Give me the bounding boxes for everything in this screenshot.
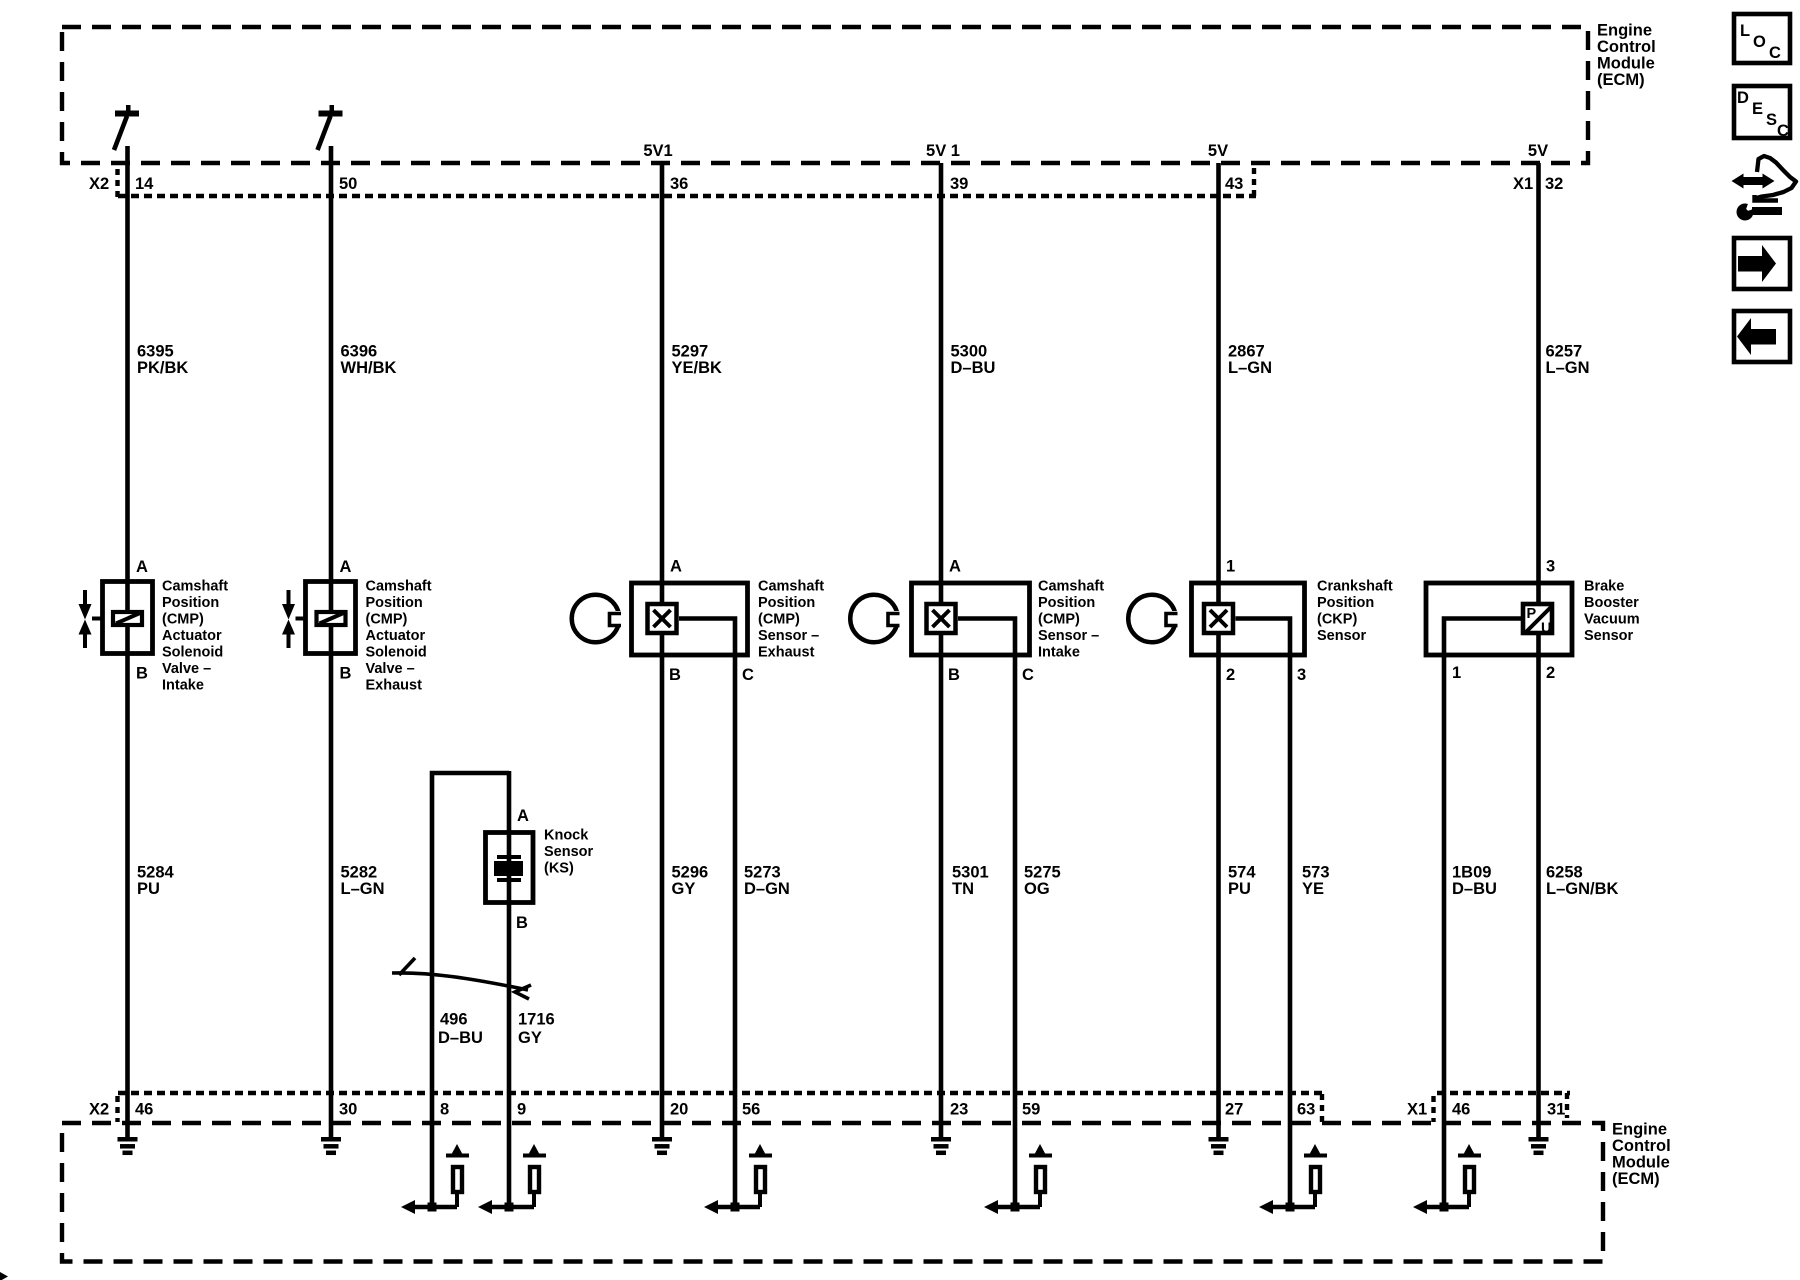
ground (pin 30) <box>321 1139 341 1153</box>
svg-text:C: C <box>1022 666 1034 684</box>
svg-text:5V 1: 5V 1 <box>926 142 960 160</box>
svg-text:A: A <box>340 558 352 576</box>
knock sensor KS <box>486 807 594 932</box>
sensor B4: Brake Booster Vacuum Sensor <box>1426 558 1640 683</box>
ground (pin 46 X2) <box>118 1139 138 1153</box>
svg-text:36: 36 <box>670 175 688 193</box>
ground (pin 23) <box>931 1139 951 1153</box>
svg-text:5301: 5301 <box>952 864 989 882</box>
wire 6396 WH/BK (pin 50 to solenoid A, then 5282 L-GN pin B to pin 30) <box>329 146 334 1139</box>
svg-text:46: 46 <box>1452 1101 1470 1119</box>
reluctor wheel (CMP intake) <box>850 595 902 643</box>
wire 6395 PK/BK (pin 14 to solenoid A, then 5284 PU pin B to pin 46) <box>125 146 130 1139</box>
svg-text:5V1: 5V1 <box>643 142 672 160</box>
sensor B3: Crankshaft Position (CKP) Sensor <box>1192 558 1393 685</box>
wire 496 D-BU (knock sensor A loop to pin 8) <box>432 773 509 1207</box>
wire label 5297 YE/BK <box>672 343 723 378</box>
svg-text:14: 14 <box>135 175 154 193</box>
svg-text:Crankshaft: Crankshaft <box>1317 579 1393 595</box>
svg-text:D–BU: D–BU <box>1452 880 1497 898</box>
wire label 5296 GY <box>672 864 709 899</box>
svg-text:Sensor: Sensor <box>1584 628 1634 644</box>
wire label 1716 GY <box>518 1011 555 1048</box>
svg-text:3: 3 <box>1297 666 1306 684</box>
svg-text:63: 63 <box>1297 1101 1315 1119</box>
svg-text:(ECM): (ECM) <box>1597 71 1645 89</box>
svg-text:B: B <box>669 666 681 684</box>
svg-text:2: 2 <box>1546 664 1555 682</box>
svg-text:2: 2 <box>1226 666 1235 684</box>
LOC legend icon <box>1734 14 1790 63</box>
svg-text:30: 30 <box>339 1101 357 1119</box>
svg-text:5V: 5V <box>1528 142 1548 160</box>
svg-text:Module: Module <box>1597 55 1655 73</box>
ECM bottom module box <box>62 1121 1671 1262</box>
svg-text:Position: Position <box>1317 595 1374 611</box>
svg-text:Solenoid: Solenoid <box>366 645 427 661</box>
svg-text:1: 1 <box>1226 558 1235 576</box>
ground (pin 27) <box>1209 1139 1229 1153</box>
page edge artifact mark <box>0 1272 8 1280</box>
svg-text:D–GN: D–GN <box>744 880 790 898</box>
svg-text:(CKP): (CKP) <box>1317 612 1357 628</box>
wire label 6258 L-GN/BK <box>1546 864 1619 899</box>
svg-text:46: 46 <box>135 1101 153 1119</box>
svg-text:C: C <box>1777 122 1789 140</box>
svg-text:X2: X2 <box>89 1101 109 1119</box>
wire 5297 YE/BK (pin 36 to CMP exhaust A, then 5296 GY pin B to pin 20) <box>660 163 665 1139</box>
svg-text:Camshaft: Camshaft <box>1038 579 1104 595</box>
svg-text:Intake: Intake <box>1038 645 1080 661</box>
wire label 2867 L-GN <box>1228 343 1272 378</box>
svg-text:6395: 6395 <box>137 343 174 361</box>
svg-text:5275: 5275 <box>1024 864 1061 882</box>
svg-text:1B09: 1B09 <box>1452 864 1491 882</box>
wire label 5275 OG <box>1024 864 1061 899</box>
svg-text:Control: Control <box>1597 38 1656 56</box>
svg-text:Vacuum: Vacuum <box>1584 612 1640 628</box>
wire label 6396 WH/BK <box>341 343 397 378</box>
ECM internal termination resistor R (pin 59) <box>984 1144 1052 1214</box>
svg-text:5V: 5V <box>1208 142 1228 160</box>
svg-text:U: U <box>1541 621 1551 637</box>
wire label 5273 D-GN <box>744 864 790 899</box>
svg-text:D–BU: D–BU <box>438 1029 483 1047</box>
svg-text:Position: Position <box>162 595 219 611</box>
svg-text:L: L <box>1740 22 1750 40</box>
svg-text:Sensor –: Sensor – <box>758 628 819 644</box>
DESC legend icon <box>1734 86 1790 140</box>
svg-text:Engine: Engine <box>1597 22 1652 40</box>
wire 1809 D-BU (BBV 1 to X1 pin 46) <box>1444 619 1522 1208</box>
svg-text:B: B <box>340 665 352 683</box>
svg-text:5273: 5273 <box>744 864 781 882</box>
wire label 573 YE <box>1302 864 1330 899</box>
wire 2867 L-GN (pin 43 to CKP 1, then 574 PU pin 2 to pin 27) <box>1216 163 1221 1139</box>
svg-text:27: 27 <box>1225 1101 1243 1119</box>
svg-text:X2: X2 <box>89 175 109 193</box>
sensor B1: Camshaft Position (CMP) Sensor - Exhaust <box>632 558 825 685</box>
wire label 6257 L-GN <box>1546 343 1590 378</box>
svg-text:59: 59 <box>1022 1101 1040 1119</box>
svg-text:Position: Position <box>1038 595 1095 611</box>
svg-text:B: B <box>948 666 960 684</box>
wire 573 YE (CKP 3 to pin 63) <box>1236 619 1291 1208</box>
svg-text:5300: 5300 <box>951 343 988 361</box>
svg-text:Module: Module <box>1612 1154 1670 1172</box>
svg-text:Sensor: Sensor <box>544 844 594 860</box>
wire 5275 OG (CMP intake C to pin 59) <box>958 619 1015 1208</box>
sensor B2: Camshaft Position (CMP) Sensor - Intake <box>912 558 1105 685</box>
svg-text:E: E <box>1752 100 1763 118</box>
svg-text:Booster: Booster <box>1584 595 1639 611</box>
svg-text:C: C <box>742 666 754 684</box>
svg-text:23: 23 <box>950 1101 968 1119</box>
solenoid L1: Camshaft Position (CMP) Actuator Solenoid Valve - Intake <box>79 558 229 694</box>
svg-text:Sensor: Sensor <box>1317 628 1367 644</box>
svg-text:D–BU: D–BU <box>951 359 996 377</box>
wire label 5284 PU <box>137 864 175 899</box>
svg-text:P: P <box>1527 606 1537 622</box>
svg-text:S: S <box>1766 111 1777 129</box>
svg-text:2867: 2867 <box>1228 343 1265 361</box>
svg-text:Actuator: Actuator <box>162 628 222 644</box>
svg-text:Exhaust: Exhaust <box>366 678 423 694</box>
svg-text:573: 573 <box>1302 864 1330 882</box>
reluctor wheel (CMP exhaust) <box>572 595 624 643</box>
svg-text:GY: GY <box>672 880 696 898</box>
ECM internal termination resistor R (pin 63) <box>1259 1144 1327 1214</box>
svg-text:O: O <box>1753 33 1766 51</box>
svg-text:(CMP): (CMP) <box>366 612 408 628</box>
ECM internal termination resistor R (pin 8) <box>401 1144 469 1214</box>
svg-text:Knock: Knock <box>544 828 589 844</box>
back navigation arrow icon <box>1734 311 1790 362</box>
svg-text:X1: X1 <box>1407 1101 1427 1119</box>
ground (pin 20) <box>652 1139 672 1153</box>
svg-text:5284: 5284 <box>137 864 175 882</box>
svg-text:20: 20 <box>670 1101 688 1119</box>
svg-text:39: 39 <box>950 175 968 193</box>
ECM internal driver pin symbol (pin 14) <box>114 105 139 150</box>
svg-text:L–GN/BK: L–GN/BK <box>1546 880 1619 898</box>
svg-text:A: A <box>670 558 682 576</box>
svg-text:574: 574 <box>1228 864 1256 882</box>
connector X2/X1 row (bottom, dotted) <box>89 1093 1570 1122</box>
svg-text:43: 43 <box>1225 175 1243 193</box>
diagnostic wrench/arrows icon <box>1732 156 1797 220</box>
ground (pin 31) <box>1529 1139 1549 1153</box>
forward navigation arrow icon <box>1734 238 1790 289</box>
wire label 5282 L-GN <box>341 864 385 899</box>
svg-text:Camshaft: Camshaft <box>366 579 432 595</box>
wire 6257 L-GN (pin 32 to BBV 3, then 6258 L-GN/BK pin 2 to pin 31) <box>1536 163 1541 1139</box>
svg-text:50: 50 <box>339 175 357 193</box>
svg-text:A: A <box>517 807 529 825</box>
ECM top module box <box>62 22 1656 164</box>
svg-text:5297: 5297 <box>672 343 709 361</box>
wire 1716 GY (knock sensor B to pin 9) <box>507 771 512 1207</box>
svg-text:Valve –: Valve – <box>162 661 211 677</box>
ECM internal termination resistor R (pin 56) <box>704 1144 772 1214</box>
svg-text:Control: Control <box>1612 1137 1671 1155</box>
svg-text:L–GN: L–GN <box>1228 359 1272 377</box>
svg-text:Solenoid: Solenoid <box>162 645 223 661</box>
ECM internal termination resistor R (pin 9) <box>478 1144 546 1214</box>
svg-text:Exhaust: Exhaust <box>758 645 815 661</box>
wire label 496 D-BU <box>438 1011 483 1048</box>
wire label 6395 PK/BK <box>137 343 188 378</box>
svg-text:B: B <box>516 914 528 932</box>
svg-text:6257: 6257 <box>1546 343 1583 361</box>
svg-text:1716: 1716 <box>518 1011 555 1029</box>
connector X2/X1 row (top, dotted) <box>89 168 1533 199</box>
svg-text:56: 56 <box>742 1101 760 1119</box>
svg-text:WH/BK: WH/BK <box>341 359 397 377</box>
svg-text:496: 496 <box>440 1011 468 1029</box>
wire label 5301 TN <box>952 864 989 899</box>
svg-text:PK/BK: PK/BK <box>137 359 188 377</box>
svg-text:(CMP): (CMP) <box>162 612 204 628</box>
wire 5300 D-BU (pin 39 to CMP intake A, then 5301 TN pin B to pin 23) <box>939 163 944 1139</box>
svg-text:GY: GY <box>518 1029 542 1047</box>
wire label 1809 D-BU <box>1452 864 1497 899</box>
svg-text:8: 8 <box>440 1101 449 1119</box>
svg-text:31: 31 <box>1547 1101 1565 1119</box>
svg-text:PU: PU <box>137 880 160 898</box>
svg-text:Position: Position <box>366 595 423 611</box>
svg-text:OG: OG <box>1024 880 1050 898</box>
svg-text:Brake: Brake <box>1584 579 1624 595</box>
svg-text:Camshaft: Camshaft <box>758 579 824 595</box>
svg-text:Intake: Intake <box>162 678 204 694</box>
svg-text:D: D <box>1737 89 1749 107</box>
ECM internal driver pin symbol (pin 50) <box>318 105 343 150</box>
svg-text:PU: PU <box>1228 880 1251 898</box>
svg-text:Engine: Engine <box>1612 1121 1667 1139</box>
svg-text:1: 1 <box>1452 664 1461 682</box>
solenoid L2: Camshaft Position (CMP) Actuator Solenoid Valve - Exhaust <box>282 558 432 694</box>
svg-text:(CMP): (CMP) <box>758 612 800 628</box>
twisted-pair marker across knock sensor wires <box>392 958 531 999</box>
svg-text:C: C <box>1769 44 1781 62</box>
svg-text:X1: X1 <box>1513 175 1533 193</box>
wire 5273 D-GN (CMP exhaust C to pin 56) <box>679 619 735 1208</box>
svg-text:YE: YE <box>1302 880 1324 898</box>
svg-text:3: 3 <box>1546 558 1555 576</box>
svg-text:Camshaft: Camshaft <box>162 579 228 595</box>
svg-text:Position: Position <box>758 595 815 611</box>
ECM internal termination resistor R (X1 pin 46) <box>1413 1144 1481 1214</box>
svg-text:5282: 5282 <box>341 864 378 882</box>
svg-text:5296: 5296 <box>672 864 709 882</box>
svg-text:32: 32 <box>1545 175 1563 193</box>
svg-text:YE/BK: YE/BK <box>672 359 723 377</box>
svg-text:B: B <box>136 665 148 683</box>
svg-text:Valve –: Valve – <box>366 661 415 677</box>
svg-text:Sensor –: Sensor – <box>1038 628 1099 644</box>
svg-text:(ECM): (ECM) <box>1612 1170 1660 1188</box>
svg-text:(CMP): (CMP) <box>1038 612 1080 628</box>
wire label 574 PU <box>1228 864 1256 899</box>
svg-text:9: 9 <box>517 1101 526 1119</box>
svg-text:6396: 6396 <box>341 343 378 361</box>
svg-text:L–GN: L–GN <box>341 880 385 898</box>
svg-text:L–GN: L–GN <box>1546 359 1590 377</box>
svg-text:6258: 6258 <box>1546 864 1583 882</box>
svg-text:A: A <box>949 558 961 576</box>
svg-text:TN: TN <box>952 880 974 898</box>
reluctor wheel (CKP) <box>1128 595 1180 643</box>
wire label 5300 D-BU <box>951 343 996 378</box>
svg-text:Actuator: Actuator <box>366 628 426 644</box>
svg-text:(KS): (KS) <box>544 861 574 877</box>
svg-text:A: A <box>136 558 148 576</box>
